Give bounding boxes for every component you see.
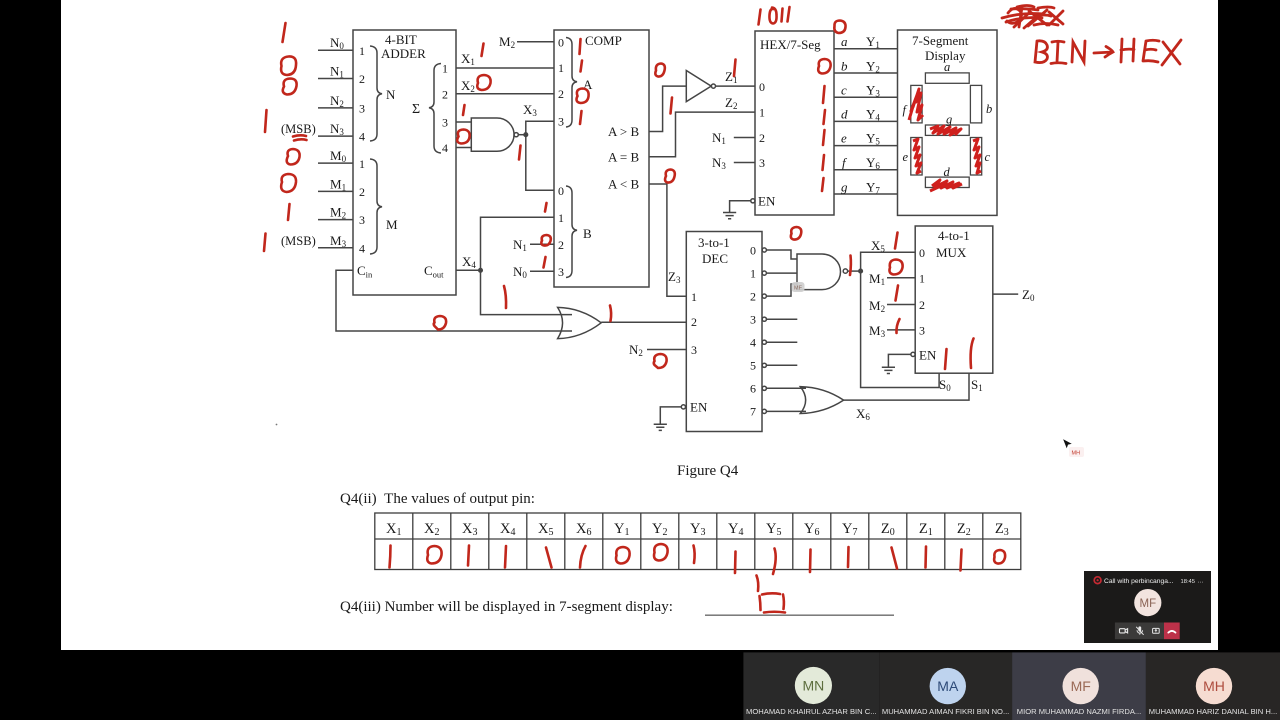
- svg-text:MH: MH: [1203, 678, 1225, 694]
- svg-text:EN: EN: [919, 348, 937, 363]
- svg-text:2: 2: [759, 131, 765, 145]
- svg-text:0: 0: [750, 244, 756, 258]
- svg-text:COMP: COMP: [585, 33, 622, 48]
- svg-text:18:45: 18:45: [1181, 579, 1196, 585]
- svg-text:Q4(ii) The values of output p: Q4(ii) The values of output pin:: [340, 491, 535, 507]
- svg-text:3: 3: [919, 324, 925, 338]
- svg-text:1: 1: [359, 157, 365, 171]
- svg-text:MOHAMAD KHAIRUL AZHAR BIN C...: MOHAMAD KHAIRUL AZHAR BIN C...: [746, 707, 877, 716]
- svg-text:c: c: [841, 83, 847, 98]
- svg-text:ADDER: ADDER: [381, 46, 426, 61]
- svg-text:1: 1: [442, 62, 448, 76]
- svg-text:1: 1: [558, 61, 564, 75]
- svg-text:b: b: [841, 59, 848, 74]
- svg-text:2: 2: [359, 72, 365, 86]
- svg-text:e: e: [903, 150, 909, 164]
- svg-text:b: b: [986, 102, 992, 116]
- svg-text:A = B: A = B: [608, 150, 640, 165]
- svg-text:1: 1: [750, 267, 756, 281]
- svg-text:DEC: DEC: [702, 251, 728, 266]
- svg-text:MN: MN: [803, 678, 825, 694]
- svg-text:6: 6: [750, 382, 756, 396]
- svg-text:1: 1: [691, 290, 697, 304]
- svg-text:EN: EN: [758, 194, 776, 209]
- svg-text:d: d: [944, 165, 951, 179]
- svg-text:0: 0: [759, 80, 765, 94]
- svg-text:Call with perbincanga...: Call with perbincanga...: [1104, 578, 1174, 585]
- svg-text:3: 3: [558, 265, 564, 279]
- svg-text:HEX/7-Seg: HEX/7-Seg: [760, 37, 821, 52]
- svg-text:d: d: [841, 107, 848, 122]
- svg-text:g: g: [946, 113, 952, 127]
- svg-text:a: a: [841, 34, 848, 49]
- svg-text:3: 3: [359, 102, 365, 116]
- svg-text:3: 3: [691, 343, 697, 357]
- svg-text:5: 5: [750, 359, 756, 373]
- svg-text:Q4(iii) Number will be display: Q4(iii) Number will be displayed in 7-se…: [340, 599, 673, 615]
- svg-text:...: ...: [1198, 578, 1204, 585]
- svg-text:2: 2: [442, 88, 448, 102]
- svg-text:a: a: [944, 60, 950, 74]
- svg-text:MF: MF: [794, 286, 803, 292]
- svg-text:A < B: A < B: [608, 177, 640, 192]
- svg-text:(MSB): (MSB): [281, 234, 316, 248]
- svg-text:3: 3: [558, 115, 564, 129]
- svg-text:MIOR MUHAMMAD NAZMI FIRDA...: MIOR MUHAMMAD NAZMI FIRDA...: [1017, 707, 1141, 716]
- svg-text:2: 2: [750, 290, 756, 304]
- svg-text:7-Segment: 7-Segment: [912, 33, 969, 48]
- svg-text:3: 3: [359, 213, 365, 227]
- svg-text:7: 7: [750, 405, 756, 419]
- svg-text:0: 0: [558, 184, 564, 198]
- svg-text:1: 1: [359, 44, 365, 58]
- svg-text:MF: MF: [1071, 678, 1091, 694]
- svg-text:4: 4: [359, 242, 365, 256]
- svg-text:Figure Q4: Figure Q4: [677, 463, 739, 479]
- svg-text:2: 2: [691, 315, 697, 329]
- svg-text:4: 4: [750, 336, 756, 350]
- svg-text:0: 0: [919, 246, 925, 260]
- svg-text:0: 0: [558, 36, 564, 50]
- svg-text:c: c: [985, 150, 991, 164]
- svg-text:MUX: MUX: [936, 245, 967, 260]
- svg-text:M: M: [386, 217, 398, 232]
- svg-text:2: 2: [558, 238, 564, 252]
- svg-text:2: 2: [558, 87, 564, 101]
- svg-text:4-BIT: 4-BIT: [385, 32, 417, 47]
- svg-text:3-to-1: 3-to-1: [698, 235, 730, 250]
- svg-text:MA: MA: [937, 678, 959, 694]
- svg-text:g: g: [841, 180, 848, 195]
- svg-text:2: 2: [919, 298, 925, 312]
- svg-text:3: 3: [442, 116, 448, 130]
- svg-text:4: 4: [359, 130, 365, 144]
- svg-text:N: N: [386, 87, 396, 102]
- svg-text:1: 1: [759, 106, 765, 120]
- svg-text:EN: EN: [690, 400, 708, 415]
- svg-text:1: 1: [558, 211, 564, 225]
- svg-text:4-to-1: 4-to-1: [938, 228, 970, 243]
- svg-text:A > B: A > B: [608, 124, 640, 139]
- svg-text:3: 3: [750, 313, 756, 327]
- svg-text:1: 1: [919, 272, 925, 286]
- svg-text:MF: MF: [1139, 598, 1156, 610]
- svg-text:2: 2: [359, 185, 365, 199]
- svg-text:MH: MH: [1072, 451, 1081, 457]
- svg-text:MUHAMMAD HARIZ DANIAL BIN H...: MUHAMMAD HARIZ DANIAL BIN H...: [1149, 707, 1277, 716]
- svg-text:4: 4: [442, 141, 448, 155]
- svg-text:3: 3: [759, 156, 765, 170]
- svg-text:B: B: [583, 226, 592, 241]
- svg-text:e: e: [841, 131, 847, 146]
- svg-text:(MSB): (MSB): [281, 122, 316, 136]
- svg-text:MUHAMMAD AIMAN FIKRI BIN NO...: MUHAMMAD AIMAN FIKRI BIN NO...: [882, 707, 1009, 716]
- svg-text:Σ: Σ: [412, 102, 420, 117]
